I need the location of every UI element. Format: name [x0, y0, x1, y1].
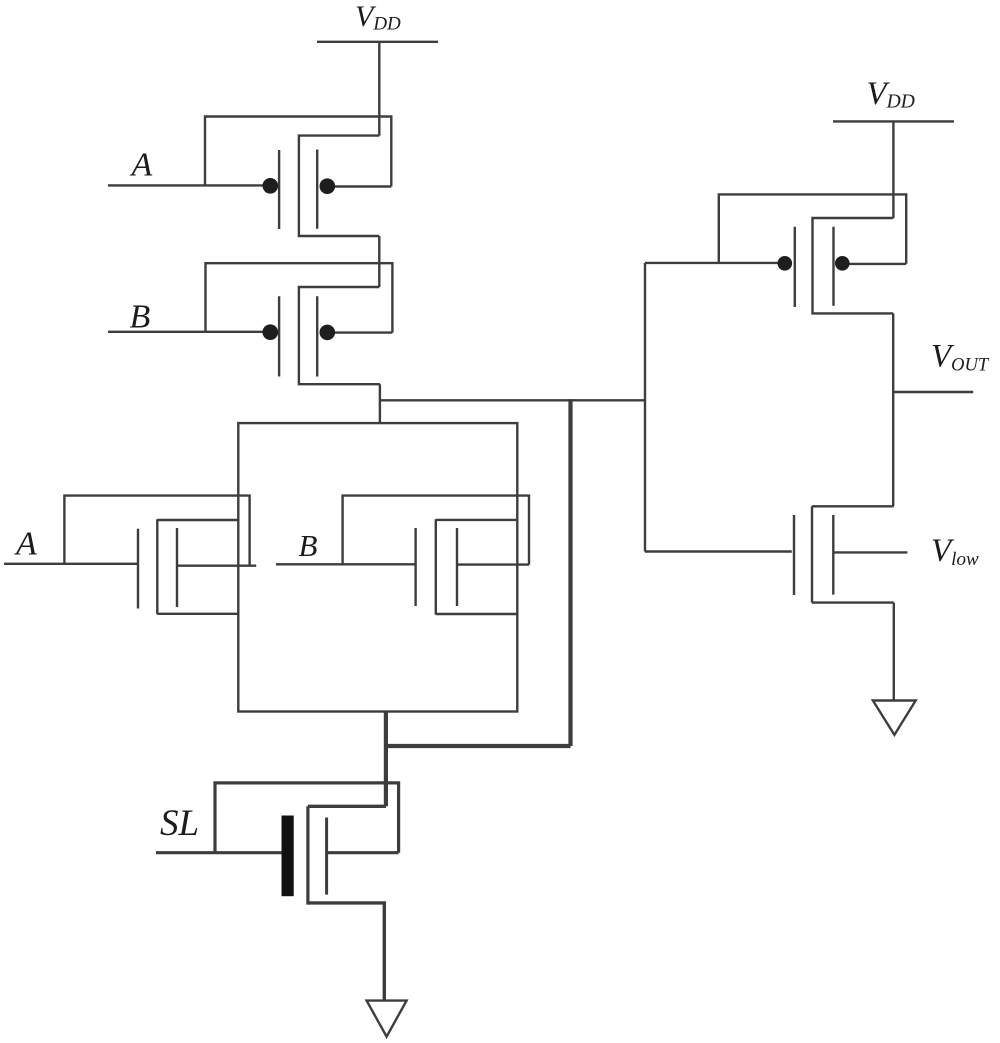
M3 left gate bar	[137, 529, 139, 609]
wire input A to M3 gate	[4, 563, 138, 565]
M6 channel with drain/source leads	[813, 218, 894, 313]
thick wire across to M5	[386, 744, 571, 748]
M3 right gate bar	[176, 528, 178, 607]
transistor M1 (PMOS, gate A, dual-gate loop)	[108, 117, 391, 237]
M6 gate loop	[719, 194, 906, 264]
M3 right gate stub	[177, 565, 256, 567]
M2 gate loop	[206, 263, 393, 332]
M1 right gate bar	[316, 150, 318, 229]
ground symbol (bottom)	[367, 1001, 407, 1037]
M2 left gate bar	[278, 296, 280, 376]
M4 channel bar	[435, 519, 437, 614]
wire NMOS pair frame	[238, 423, 517, 711]
svg-text:Vlow: Vlow	[931, 533, 979, 570]
wire input B to M4 gate	[276, 563, 416, 565]
svg-text:B: B	[299, 528, 318, 563]
M3 drain lead	[157, 519, 238, 521]
svg-text:A: A	[14, 526, 37, 563]
node dot M6 left gate	[778, 256, 793, 271]
M1 right gate stub	[327, 185, 391, 187]
M5 channel bar	[306, 806, 309, 904]
wire M6 source to M7 drain	[892, 313, 894, 506]
node dot M1 right gate	[320, 178, 336, 194]
M5 right gate stub	[327, 851, 399, 854]
M4 source lead	[436, 613, 518, 615]
svg-text:VDD: VDD	[355, 0, 401, 35]
M1 channel with drain/source leads	[299, 136, 379, 236]
VDD rail (left)	[317, 41, 438, 43]
M5 thick gate electrode	[282, 816, 294, 897]
wire node X horizontal	[380, 399, 645, 401]
M2 right gate stub	[327, 331, 392, 333]
wire VDD to M6 drain	[892, 121, 894, 218]
wire M7 right gate to Vlow	[833, 551, 907, 553]
M4 right gate bar	[456, 528, 458, 606]
node dot M1 left gate	[263, 178, 279, 194]
ground symbol (right)	[873, 701, 916, 735]
M7 channel bar	[811, 506, 813, 602]
svg-text:A: A	[130, 147, 153, 184]
M4 right gate stub	[457, 563, 529, 565]
transistor M6 (PMOS inverter, dual-gate loop)	[645, 194, 906, 313]
svg-text:B: B	[130, 299, 151, 336]
wire input A to M1 gate	[108, 184, 271, 186]
M5 right gate bar	[325, 818, 328, 895]
wire gate bus node X	[644, 263, 646, 552]
M3 gate loop	[64, 496, 249, 566]
M4 gate loop	[343, 496, 529, 565]
M2 right gate bar	[316, 296, 318, 376]
wire node X to M6 gate	[645, 262, 785, 264]
M2 channel with drain/source leads	[299, 287, 380, 384]
wire VOUT	[893, 391, 973, 393]
M3 source lead	[157, 613, 238, 615]
transistor M7 (NMOS, gate from node X / Vlow)	[645, 506, 907, 602]
M7 right gate bar	[832, 515, 834, 595]
node dot M2 left gate	[263, 324, 279, 340]
wire M1 source to M2 drain	[378, 236, 380, 287]
wire M7 source to ground	[893, 603, 895, 701]
transistor M3 (NMOS, gate A)	[4, 496, 256, 615]
M6 right gate bar	[832, 227, 834, 306]
M1 left gate bar	[278, 150, 280, 229]
transistor M4 (NMOS, gate B)	[276, 496, 529, 615]
transistor M2 (PMOS, gate B, dual-gate loop)	[108, 263, 392, 384]
thick wire node X down	[568, 399, 572, 746]
VDD rail (right)	[833, 120, 954, 122]
M5 drain lead	[308, 805, 386, 808]
M7 source lead	[812, 601, 894, 603]
M5 gate loop	[215, 783, 399, 853]
wire input SL to M5 gate	[156, 851, 282, 854]
M5 source lead	[308, 903, 384, 1001]
M6 right gate stub	[842, 263, 906, 265]
svg-text:VOUT: VOUT	[931, 339, 990, 376]
M4 drain lead	[436, 519, 518, 521]
wire VDD to M1 drain	[378, 42, 380, 136]
M7 drain lead	[812, 505, 894, 507]
wire M2 source down to node X	[379, 384, 381, 423]
node dot M6 right gate	[835, 256, 850, 271]
svg-text:SL: SL	[160, 803, 199, 844]
wire node X to M7 left gate	[645, 550, 792, 552]
M4 left gate bar	[414, 528, 416, 606]
transistor M5 (select NMOS, gate SL, thick gate)	[156, 783, 399, 1001]
M3 channel bar	[156, 519, 158, 614]
wire input B to M2 gate	[108, 331, 271, 333]
M7 left gate bar	[793, 515, 795, 595]
M6 left gate bar	[794, 227, 796, 307]
node dot M2 right gate	[320, 325, 336, 341]
M1 gate loop	[205, 117, 391, 187]
thick wire frame bottom to M5 drain	[384, 711, 388, 807]
svg-text:VDD: VDD	[867, 76, 915, 113]
